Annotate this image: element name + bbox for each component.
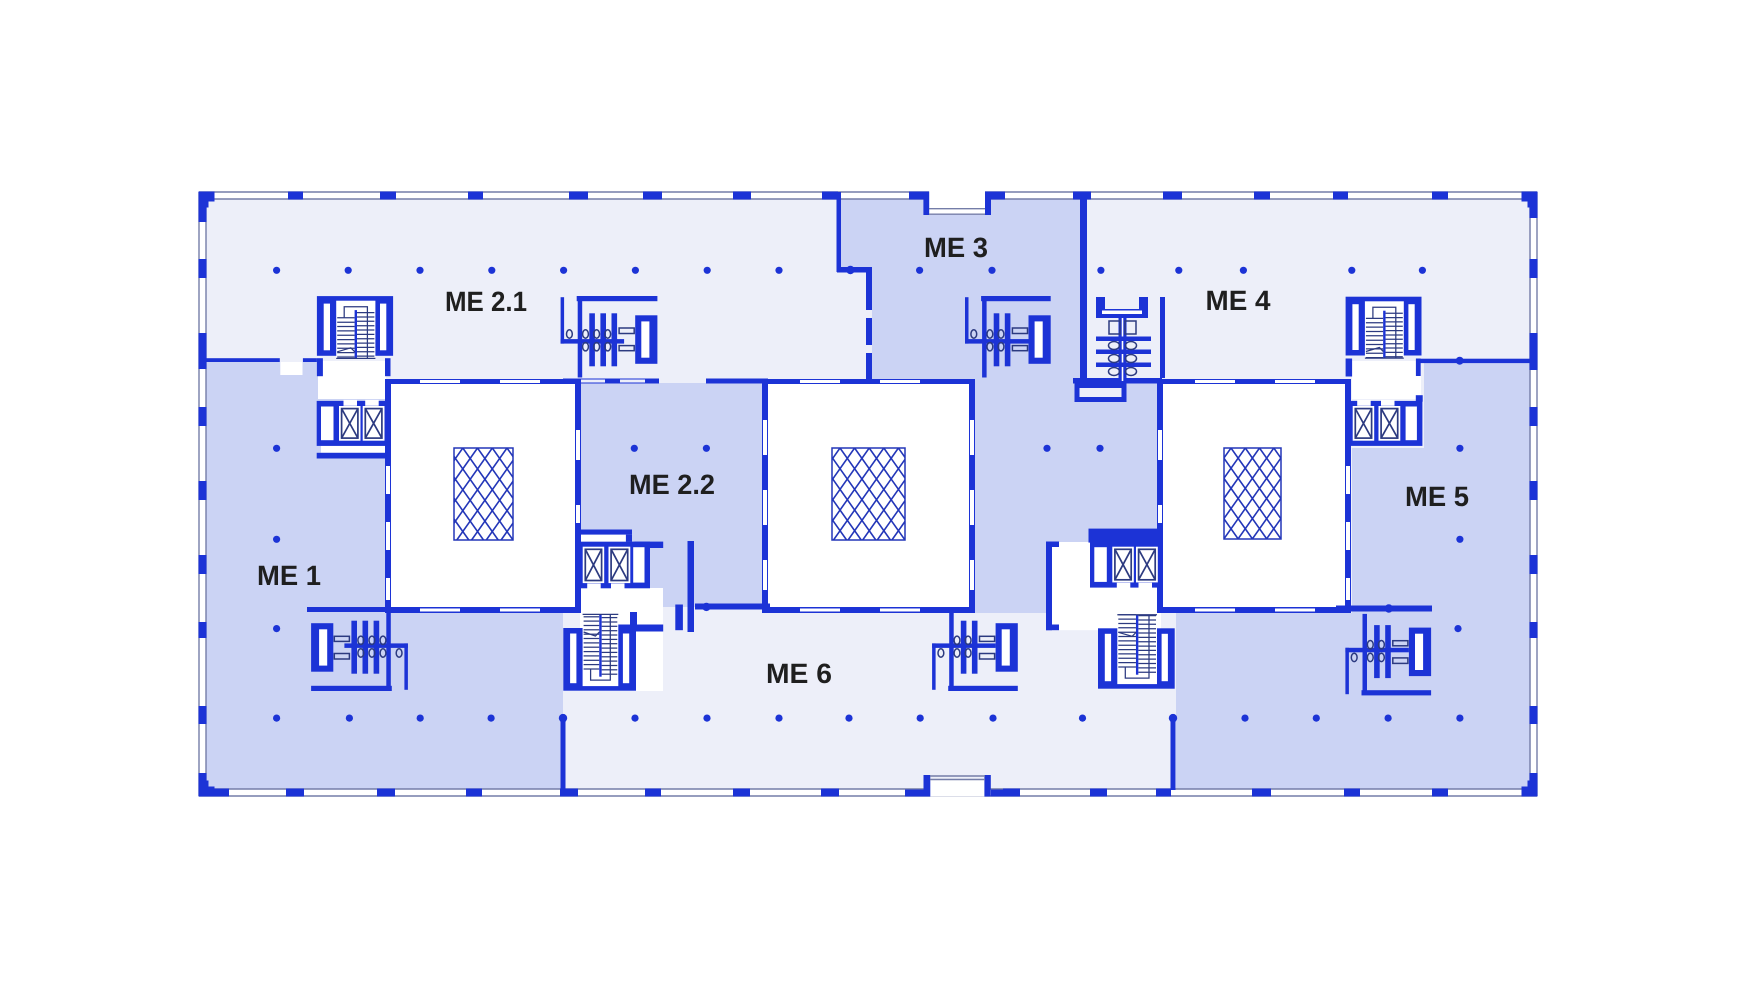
wall ME4 bottom left of core3	[1073, 378, 1162, 384]
svg-text:ME 2.1: ME 2.1	[445, 286, 527, 317]
region fill ME 3 strip	[975, 383, 1157, 613]
column grid dots row 2	[273, 445, 280, 452]
core 2 right wall	[969, 384, 975, 607]
outer wall mullion dashes right	[1530, 203, 1538, 218]
wall ME4/ME5 boundary right segment with junction	[1420, 359, 1530, 363]
column grid dots row 3	[273, 536, 280, 543]
column grid dots row 1	[273, 267, 280, 274]
stair tower1 top	[317, 296, 393, 359]
door swing white at ME1 boundary	[280, 362, 302, 375]
wall stub right of tower1 lobby	[385, 358, 391, 376]
wall right of ME4 WC	[1160, 297, 1165, 378]
tower1 top elevator lobby	[318, 361, 386, 399]
svg-text:ME 3: ME 3	[924, 232, 988, 263]
wall ME2.2 bottom with junction	[695, 604, 770, 610]
elevator tower1 south top L-wall	[581, 530, 632, 535]
core 1 bottom wall	[385, 607, 581, 613]
stair tower3 top	[1346, 297, 1422, 359]
tower1 bottom lobby walls	[630, 612, 637, 630]
elevator bank tower1 lower bars	[321, 446, 385, 453]
bottom entrance notch	[929, 780, 985, 797]
core 3 top wall	[1157, 379, 1351, 384]
wall ME2.1/ME2.2 boundary left segment	[563, 379, 659, 384]
wall right of tower1 bottom lobby	[688, 541, 695, 632]
svg-text:ME 2.2: ME 2.2	[629, 469, 715, 500]
core 3 white area	[1163, 384, 1345, 607]
outer wall mullion dashes left	[199, 207, 207, 222]
wall ME2.1/ME1 boundary with door gap	[204, 358, 280, 362]
svg-text:ME 5: ME 5	[1405, 481, 1469, 512]
floor plate light fill	[206, 199, 1531, 789]
region fill ME 3 mid	[872, 272, 1080, 383]
wall ME1/ME6 boundary with junction	[561, 718, 566, 790]
elevator tower2 south top bar	[1089, 529, 1162, 543]
toilets ME6	[932, 610, 1018, 692]
core 3 hatch	[1096, 448, 1410, 539]
core 2 white area	[768, 384, 970, 607]
toilets ME2.1	[561, 296, 658, 378]
region fill ME 5	[1176, 363, 1530, 789]
core 2 bottom wall	[762, 607, 975, 613]
svg-text:ME 4: ME 4	[1206, 285, 1271, 316]
toilets ME5	[1345, 614, 1431, 696]
tower3 top elevator lobby	[1352, 361, 1421, 399]
toilets ME4	[1096, 297, 1151, 381]
tower2 lobby left wall with door stubs	[1046, 542, 1052, 631]
svg-text:ME 1: ME 1	[257, 560, 321, 591]
elevator bank tower1 south	[581, 542, 650, 590]
outer wall outline right	[1529, 192, 1531, 796]
core 1 left wall	[385, 384, 391, 607]
elevator bank tower1	[317, 400, 391, 446]
wall stub left of tower1 lobby	[317, 358, 323, 376]
shaft niche below ME4 wall	[1077, 386, 1124, 400]
core 1 top wall	[385, 379, 581, 384]
wall divider in ME5 with junction	[1336, 606, 1432, 612]
outer wall outline top	[199, 191, 1537, 193]
wall right of tower1 E2 top	[634, 542, 663, 548]
wall above ME1 bottom WC	[307, 607, 402, 612]
tower2 bottom lobby	[1052, 542, 1161, 630]
outer wall mullion dashes top	[288, 192, 303, 200]
outer wall outline bottom	[199, 788, 1537, 790]
wall stub right of tower3 lobby	[1416, 359, 1421, 377]
outer wall corner blocks	[199, 192, 215, 202]
core 1 right wall	[575, 384, 581, 613]
core 2 top wall	[762, 379, 975, 384]
wall stub left of tower3 lobby	[1346, 359, 1353, 377]
column grid dots row 5	[273, 715, 280, 722]
region fill ME 2.2	[581, 383, 762, 607]
wall ME3/ME4 boundary	[1080, 192, 1087, 378]
stair tower1 bottom	[563, 614, 636, 691]
elevator bank tower2 south	[1090, 542, 1161, 589]
tower1 bottom lobby right strip	[636, 631, 663, 692]
stair tower2 bottom	[1098, 614, 1175, 688]
core 3 right wall	[1345, 384, 1351, 607]
core 1 hatch	[324, 448, 631, 540]
wall ME5/ME6 boundary with junction	[1171, 718, 1176, 790]
tower1 bottom stair lobby	[580, 588, 663, 631]
core 3 bottom wall	[1157, 607, 1351, 613]
region fill ME 1	[206, 362, 563, 789]
toilets ME3	[965, 296, 1051, 378]
svg-text:ME 6: ME 6	[766, 658, 832, 689]
elevator bank tower3	[1351, 400, 1422, 446]
outer wall outline left	[198, 192, 200, 796]
top entrance notch	[929, 191, 985, 215]
column grid dots row 4	[273, 625, 280, 632]
core 1 white area	[391, 384, 575, 607]
wall ME2.1/ME2.2 boundary right segment	[706, 379, 768, 384]
core 2 left wall	[762, 384, 768, 607]
wall ME3 left boundary vertical segments	[866, 272, 872, 310]
outer wall mullion dashes bottom	[214, 789, 229, 797]
wall ME3 upper-left vertical	[837, 192, 842, 272]
core 3 left wall	[1157, 384, 1163, 613]
elevator tower3 top stub	[1416, 395, 1423, 402]
core 2 hatch	[702, 448, 1022, 540]
region fill ME 3 upper	[840, 199, 1080, 272]
toilets ME1	[311, 610, 408, 692]
wall ME3 step horizontal with junction	[837, 267, 872, 273]
